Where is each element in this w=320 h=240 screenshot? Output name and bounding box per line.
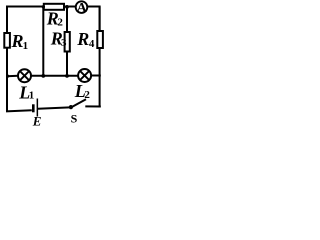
svg-text:1: 1 (23, 40, 29, 52)
wire: left vertical lower (R1 to bottom corner) (6, 48, 8, 112)
resistor R3 (65, 32, 70, 52)
wire: lamp row, L2 to right wire (91, 75, 101, 77)
resistor R4 (97, 31, 103, 48)
switch blade (71, 99, 86, 107)
battery short thick plate (negative) (32, 104, 35, 112)
wire: R3 top lead to top wire (66, 7, 68, 33)
svg-text:S: S (71, 112, 78, 126)
svg-text:2: 2 (84, 89, 90, 101)
wire: R3 bottom lead to lamp wire (66, 51, 68, 76)
wire: right vertical lower (corner up to R4) (99, 49, 101, 108)
junction dot at left wire/lamp wire (6, 75, 9, 78)
wire: battery to switch (38, 107, 70, 108)
wire: switch right terminal to bottom right corner (85, 105, 101, 107)
wire: vertical riser at R2 left junction down to lamp wire (42, 7, 44, 77)
background (0, 0, 106, 127)
resistor R2 (44, 4, 64, 10)
switch pivot dot (69, 105, 73, 109)
svg-text:1: 1 (29, 90, 35, 102)
switch S (69, 99, 86, 109)
junction dot at R3 top/top wire (65, 5, 69, 9)
lamp L1 (18, 69, 31, 82)
wire: top right segment with corner down (88, 7, 100, 32)
svg-text:3: 3 (61, 37, 67, 49)
wire: top middle segment (R2 right to ammeter) (65, 6, 76, 8)
lamp L2 (78, 69, 91, 82)
svg-text:4: 4 (89, 38, 95, 50)
battery long thin plate (positive) (37, 99, 39, 117)
wire: top left segment (7, 6, 44, 8)
junction dot at riser/lamp wire (41, 74, 45, 78)
svg-text:R: R (11, 31, 24, 51)
svg-text:R: R (76, 29, 89, 49)
wire: left vertical upper (top corner to R1) (6, 6, 8, 34)
wire: lamp row, L1 to R3 junction to L2 (31, 75, 78, 77)
wire: bottom left segment to battery (6, 110, 32, 111)
ammeter A1 (76, 1, 88, 16)
resistor R1 (4, 33, 10, 48)
battery E (32, 99, 38, 117)
svg-text:2: 2 (57, 16, 63, 28)
svg-text:E: E (32, 114, 42, 127)
junction dot at R2 left/top wire (42, 5, 45, 8)
junction dot at R3 bottom/lamp wire (65, 74, 69, 78)
wire: lamp row, left wire to L1 (7, 75, 18, 78)
svg-text:A: A (77, 1, 88, 16)
wire: right vertical upper (R4 to top corner) (99, 7, 101, 32)
